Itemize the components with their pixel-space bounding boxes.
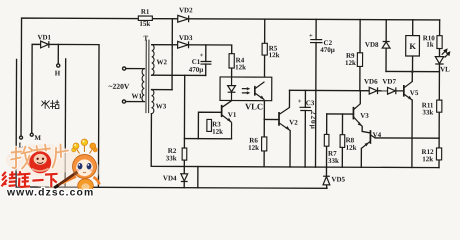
wire R7 column — [326, 114, 328, 134]
svg-text:15k: 15k — [139, 20, 150, 28]
svg-text:33k: 33k — [166, 154, 177, 162]
wire bottom rail A — [151, 114, 439, 168]
svg-text:W3: W3 — [156, 102, 167, 110]
svg-text:12k: 12k — [248, 144, 259, 152]
transformer winding W2 — [152, 45, 155, 76]
diode VD4 — [181, 174, 188, 182]
opto light arrows — [242, 88, 249, 90]
svg-text:V3: V3 — [360, 112, 369, 120]
wire V3 base line — [327, 113, 354, 115]
svg-text:12k: 12k — [422, 155, 433, 163]
svg-text:VD2: VD2 — [179, 6, 193, 14]
wire R4 lead into opto — [231, 68, 233, 77]
svg-text:12k: 12k — [235, 63, 246, 71]
transistor V4 PNP — [361, 130, 375, 148]
svg-text:W1: W1 — [131, 92, 142, 100]
wire V2 collector — [288, 90, 290, 107]
diode VD2 — [178, 15, 189, 22]
svg-text:R1: R1 — [141, 8, 150, 16]
diode VD8 — [382, 41, 390, 48]
svg-text:M: M — [34, 134, 41, 142]
svg-text:470µ: 470µ — [320, 46, 335, 54]
svg-text:VD7: VD7 — [382, 78, 396, 86]
svg-text:VD8: VD8 — [365, 41, 379, 49]
svg-text:W2: W2 — [156, 58, 167, 66]
node M electrode circle — [30, 133, 33, 136]
mascot pen — [57, 174, 75, 187]
resistor R6 — [262, 137, 267, 151]
wire V3 collector — [359, 91, 361, 104]
resistor R1 — [138, 16, 152, 20]
svg-text:~220V: ~220V — [109, 82, 130, 91]
wire R6 leads — [263, 119, 265, 136]
svg-text:V5: V5 — [410, 89, 419, 97]
wire rail connector — [197, 167, 199, 188]
node 220V terminal circles — [123, 67, 126, 70]
wire W3 top stub — [152, 89, 172, 91]
resistor R4 — [229, 54, 234, 68]
wire water tank right wall — [64, 59, 67, 187]
resistor R8 — [340, 135, 345, 148]
svg-text:H: H — [55, 69, 61, 77]
svg-text:VD6: VD6 — [364, 78, 378, 86]
svg-text:+: + — [298, 98, 302, 105]
node H electrode circle — [57, 64, 60, 67]
transformer T core — [145, 40, 147, 112]
svg-text:VLC: VLC — [245, 101, 263, 111]
svg-text:V4: V4 — [373, 131, 382, 139]
transistor V3 — [353, 104, 362, 127]
wire C2 column — [315, 19, 317, 39]
svg-text:12k: 12k — [346, 144, 357, 152]
transformer winding W3 — [151, 90, 154, 114]
wire opto emitter to V2 base node — [263, 100, 265, 120]
wire riser to top rail — [171, 19, 173, 90]
svg-text:+: + — [200, 52, 204, 59]
svg-text:33k: 33k — [422, 108, 433, 116]
wire V4 collector line — [375, 137, 439, 139]
LED VL — [435, 49, 449, 64]
wire right column drop — [438, 20, 441, 168]
resistor R12 — [436, 148, 441, 160]
svg-text:T: T — [143, 34, 148, 42]
capacitor C2 — [310, 40, 323, 43]
mascot body — [78, 179, 94, 193]
svg-text:33k: 33k — [328, 157, 339, 165]
mascot head — [73, 155, 97, 179]
wire VD4 to rail B — [183, 181, 185, 187]
wire V5 collector — [411, 72, 413, 82]
svg-text:VL: VL — [440, 66, 450, 74]
svg-text:+: + — [309, 33, 313, 40]
wire V1 emitter bottom line — [184, 138, 231, 140]
mascot eyes — [78, 163, 83, 169]
wire VD5 riser — [325, 167, 327, 176]
capacitor C1 — [200, 61, 211, 64]
transistor V1 — [222, 101, 232, 139]
wire W2 top to VD3 line — [152, 44, 153, 46]
opto LED — [231, 77, 233, 86]
svg-text:K: K — [409, 41, 416, 51]
resistor R11 — [437, 100, 442, 112]
relay K box — [406, 36, 420, 56]
svg-text:VD4: VD4 — [163, 174, 177, 182]
wire electrode H drop — [57, 44, 59, 63]
node junction dot K — [411, 70, 414, 73]
wire V2 base line — [264, 118, 279, 120]
diode VD3 — [178, 41, 189, 48]
wire V2 emitter drop — [289, 131, 291, 167]
resistor R3 — [207, 119, 212, 131]
wire R5 column photocollector — [263, 19, 265, 81]
svg-text:VD1: VD1 — [37, 33, 51, 41]
wire R8 leads — [341, 114, 343, 135]
wire R2 bottom to VD4 — [183, 160, 185, 174]
opto phototransistor — [254, 86, 256, 96]
svg-text:12k: 12k — [269, 51, 280, 59]
wire K relay leads — [412, 20, 414, 36]
watermark red ball logo — [29, 151, 51, 173]
wire bottom rail B — [16, 187, 327, 188]
node L electrode circle — [20, 136, 23, 139]
wire VD3 output line — [153, 45, 232, 54]
watermark faded orange text zhao xin pian — [11, 145, 68, 169]
wire C1 bottom lead — [205, 64, 207, 75]
watermark mascot — [54, 139, 99, 196]
svg-text:220µ: 220µ — [309, 111, 318, 130]
wire collector bus line — [290, 89, 404, 91]
svg-text:C3: C3 — [306, 99, 315, 107]
diode VD1 — [41, 41, 49, 48]
svg-text:V1: V1 — [228, 111, 237, 119]
wire C3 bottom lead — [304, 111, 306, 167]
diode VD6 — [369, 87, 377, 94]
watermark red text weiku yixia — [2, 171, 58, 187]
svg-text:12k: 12k — [212, 128, 223, 136]
wire C3 top lead — [304, 90, 306, 107]
wire water tank left wall — [15, 59, 18, 187]
svg-text:1k: 1k — [426, 41, 434, 49]
capacitor C3 — [299, 107, 311, 110]
label shuita water tower glyphs — [42, 100, 59, 108]
wire V1 base line — [198, 112, 221, 139]
resistor R5 — [262, 43, 267, 55]
wire top rail — [21, 18, 440, 138]
watermark background glow — [6, 144, 100, 190]
transformer winding W1 — [142, 69, 144, 102]
wire V3 emitter to V4 base — [362, 126, 370, 133]
wire VD8 leads — [385, 20, 387, 42]
svg-text:VD3: VD3 — [179, 34, 193, 42]
transistor V2 — [279, 107, 290, 130]
wire R2 column — [183, 75, 185, 148]
wire C1 top lead — [205, 45, 207, 62]
diode VD5 — [323, 176, 330, 185]
wire V4 emitter drop — [360, 148, 362, 167]
wire center tap line — [152, 74, 206, 76]
svg-text:V2: V2 — [289, 119, 298, 127]
wire relay node line — [386, 70, 439, 72]
svg-text:12k: 12k — [345, 59, 356, 67]
wire electrode line VD1 — [32, 44, 100, 187]
transistor V5 — [396, 81, 412, 100]
mascot arms — [65, 177, 77, 183]
svg-text:www.dzsc.com: www.dzsc.com — [6, 187, 94, 197]
wire R9 column — [359, 20, 361, 53]
wire V5 emitter drop — [411, 100, 413, 167]
optocoupler VLC box — [220, 77, 272, 108]
resistor R9 — [357, 53, 362, 67]
svg-text:470µ: 470µ — [189, 66, 204, 74]
resistor R10 — [437, 36, 442, 49]
svg-text:VD5: VD5 — [331, 175, 345, 183]
wire V1 collector diag — [222, 101, 232, 108]
mascot antennae — [76, 145, 93, 154]
resistor R7 — [324, 134, 329, 146]
diode VD7 — [388, 87, 396, 94]
resistor R2 — [182, 148, 187, 160]
wire 220V terminal stubs — [126, 68, 145, 70]
